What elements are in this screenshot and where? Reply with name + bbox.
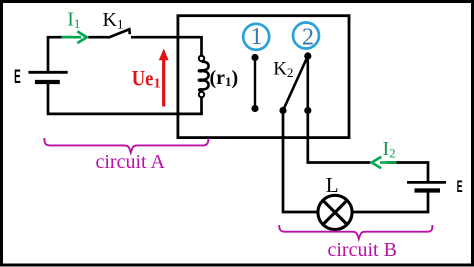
node marker 2 (blue circle) <box>293 23 319 49</box>
svg-text:circuit B: circuit B <box>328 239 397 261</box>
svg-text:E: E <box>457 177 463 196</box>
current arrow I2 <box>371 157 397 168</box>
svg-text:circuit A: circuit A <box>96 151 166 173</box>
brace circuit A <box>44 138 208 153</box>
wire: battery E bottom to lamp L <box>353 192 428 212</box>
svg-text:E: E <box>14 67 21 88</box>
wire: coil (r1) bottom terminal back to battery E (circuit A bottom) <box>48 84 202 114</box>
relay box <box>178 16 349 138</box>
lamp L <box>318 195 352 229</box>
svg-text:L: L <box>326 173 339 197</box>
switch K2 (relay contact with junction dots) <box>279 52 311 114</box>
battery E (right, circuit B) <box>407 182 446 190</box>
wire: switch K1 to coil (r1) top terminal <box>131 37 202 56</box>
wire: K2 right leg to battery E (circuit B top) <box>308 112 428 181</box>
svg-text:K2: K2 <box>273 59 293 80</box>
svg-text:K1: K1 <box>103 9 124 32</box>
voltage arrow Ue1 <box>159 49 169 107</box>
wire: battery E top to switch K1 <box>48 37 108 71</box>
svg-text:Ue: Ue <box>132 66 154 91</box>
current arrow I1 <box>62 31 89 43</box>
relay contact 1 (fixed contact with junction dots) <box>251 54 258 112</box>
svg-text:I2: I2 <box>383 138 396 161</box>
switch K1 <box>108 29 130 38</box>
wire: K2 left leg down to lamp L <box>283 112 317 212</box>
svg-text:(r1): (r1) <box>210 67 239 89</box>
svg-text:I1: I1 <box>67 9 80 32</box>
battery E (left, circuit A) <box>28 72 67 82</box>
svg-text:1: 1 <box>154 77 161 92</box>
svg-text:2: 2 <box>302 24 314 50</box>
svg-text:1: 1 <box>251 24 263 50</box>
brace circuit B <box>279 225 432 239</box>
inductor coil (r1) with terminal pins <box>199 56 209 98</box>
node marker 1 (blue circle) <box>243 24 269 50</box>
